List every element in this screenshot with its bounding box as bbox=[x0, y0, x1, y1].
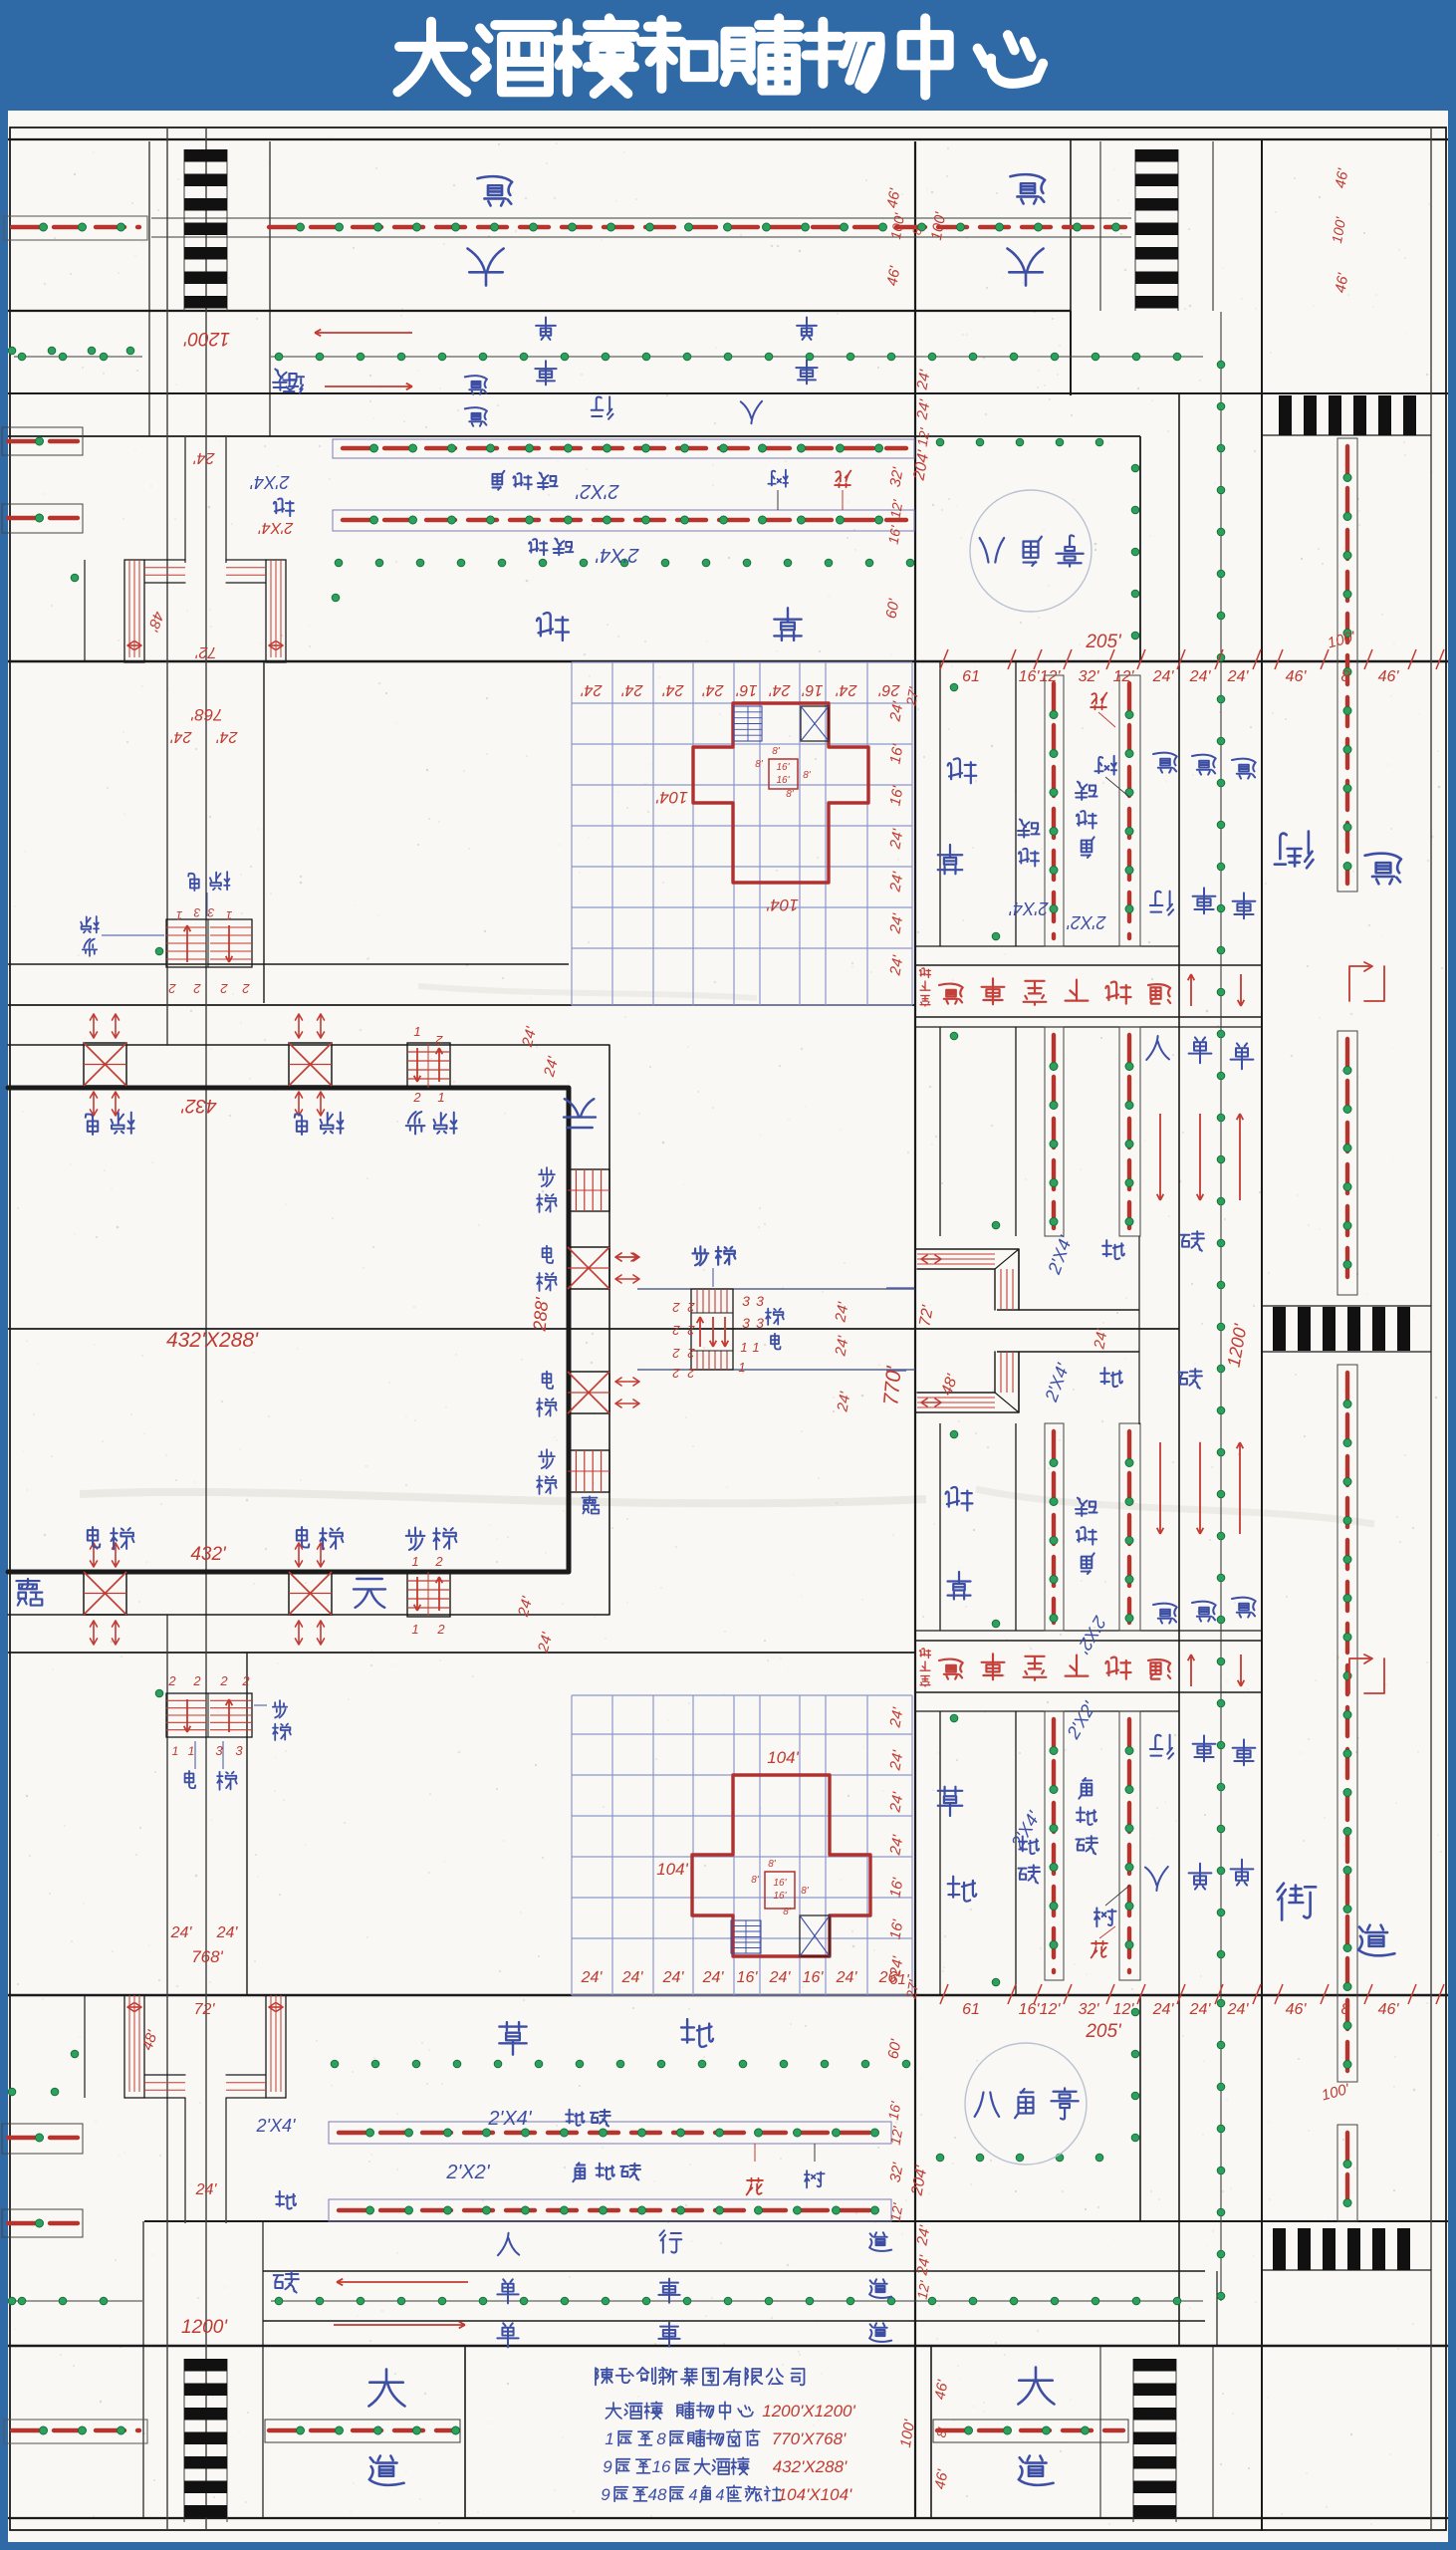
svg-text:1: 1 bbox=[411, 1622, 418, 1637]
svg-text:2: 2 bbox=[687, 1300, 696, 1315]
svg-text:104': 104' bbox=[767, 1748, 799, 1767]
tick slashes bottom header row bbox=[940, 1984, 948, 2004]
bottom avenue bottom edge y2528 bbox=[8, 2517, 1448, 2519]
building mid floor line bbox=[8, 1328, 1179, 1330]
svg-text:26': 26' bbox=[878, 681, 901, 698]
bottom lane row labels bbox=[498, 2233, 519, 2255]
right wall arrows bbox=[615, 1256, 639, 1258]
bottom lawn labels bbox=[499, 2022, 526, 2055]
svg-text:8': 8' bbox=[803, 770, 812, 781]
right section tree strips with flowers bbox=[1045, 675, 1064, 946]
svg-text:3: 3 bbox=[207, 905, 214, 919]
right street labels top (rotated) bbox=[1275, 832, 1314, 869]
lane divider y2280 bbox=[263, 2270, 1205, 2272]
green dotted bike lane top bbox=[14, 356, 142, 358]
mid corridor lines right bbox=[997, 1309, 1139, 1311]
svg-text:8': 8' bbox=[786, 789, 795, 800]
legend box bbox=[464, 2346, 466, 2518]
crosswalk frame verticals bottom-left bbox=[142, 2221, 144, 2346]
svg-text:2: 2 bbox=[672, 1323, 681, 1338]
svg-text:2: 2 bbox=[192, 1673, 201, 1688]
right lane col arrows bottom bbox=[1190, 1655, 1192, 1686]
green dotted bike lane vertical right bbox=[1220, 357, 1222, 1995]
svg-text:205': 205' bbox=[1085, 2021, 1122, 2042]
svg-text:24': 24' bbox=[581, 681, 604, 698]
crosswalk top-right bbox=[1135, 149, 1178, 162]
svg-text:16': 16' bbox=[1019, 668, 1041, 685]
svg-text:2: 2 bbox=[220, 981, 229, 996]
crosswalk bottom-left bbox=[184, 2359, 227, 2372]
svg-text:2'X4': 2'X4' bbox=[250, 472, 290, 492]
svg-text:16: 16 bbox=[652, 2457, 671, 2476]
stair 2x2 top axis bbox=[166, 919, 252, 967]
band above building y968 bbox=[8, 963, 569, 965]
svg-text:8': 8' bbox=[768, 1859, 777, 1870]
svg-text:24': 24' bbox=[216, 1924, 239, 1941]
lane band line y438 bbox=[8, 435, 1140, 437]
svg-text:2: 2 bbox=[168, 981, 177, 996]
vertical x1184 (lane col west) bbox=[1178, 393, 1180, 2346]
zebra boundary lines right street bbox=[1262, 434, 1431, 436]
top avenue centerline band lines bbox=[151, 217, 1131, 219]
corridor right-end vertical x1144 bbox=[1138, 1236, 1140, 1424]
blue tick segments near C structure bbox=[886, 1287, 914, 1289]
svg-text:2'X4': 2'X4' bbox=[595, 544, 639, 566]
svg-text:16': 16' bbox=[736, 681, 758, 698]
svg-text:2: 2 bbox=[436, 1622, 445, 1637]
svg-text:61': 61' bbox=[889, 1971, 910, 1988]
green dotted bike lane bottom bbox=[14, 2300, 142, 2302]
tree strip bottom 1 bbox=[329, 2122, 891, 2144]
svg-text:2: 2 bbox=[672, 1346, 681, 1361]
left street garden boxes top bbox=[2, 427, 83, 455]
building elevator boxes top wall bbox=[84, 1043, 126, 1086]
svg-text:32': 32' bbox=[1079, 668, 1100, 685]
mid corridor lines center bbox=[637, 1288, 915, 1290]
svg-text:24': 24' bbox=[769, 1969, 792, 1986]
svg-text:2: 2 bbox=[435, 1033, 444, 1048]
top avenue centerline boxes at left edge bbox=[4, 216, 147, 240]
top avenue top edge bbox=[8, 138, 1448, 140]
building right wall stair box upper bbox=[568, 1169, 609, 1211]
svg-text:768': 768' bbox=[191, 1947, 223, 1966]
svg-text:2'X4': 2'X4' bbox=[258, 519, 295, 536]
svg-text:3: 3 bbox=[756, 1315, 764, 1331]
building stair box top wall bbox=[407, 1043, 450, 1088]
cross tower top (red outline) bbox=[693, 703, 868, 883]
building right wall elevator upper bbox=[568, 1247, 609, 1289]
top lane arrows bbox=[315, 332, 412, 334]
tick slashes top header row bbox=[940, 649, 948, 669]
stair column frame verticals x265 bbox=[263, 661, 265, 1003]
top plaza blue grid bbox=[571, 662, 573, 1005]
bottom avenue top edge y2355 bbox=[8, 2345, 1448, 2347]
svg-text:768': 768' bbox=[190, 705, 222, 724]
svg-text:2: 2 bbox=[434, 1554, 443, 1569]
svg-text:48: 48 bbox=[648, 2485, 667, 2504]
svg-text:72': 72' bbox=[195, 643, 217, 660]
svg-text:104': 104' bbox=[766, 895, 798, 914]
svg-text:1: 1 bbox=[740, 1340, 747, 1355]
svg-text:16': 16' bbox=[802, 681, 824, 698]
svg-text:24': 24' bbox=[1227, 2001, 1250, 2018]
svg-text:46': 46' bbox=[1286, 2001, 1308, 2018]
svg-text:16': 16' bbox=[776, 762, 790, 773]
hotel building main wall (thick) bbox=[8, 1088, 569, 1572]
svg-text:61: 61 bbox=[962, 2001, 980, 2018]
svg-text:432'X288': 432'X288' bbox=[773, 2457, 848, 2476]
dian-ti label center bbox=[766, 1309, 784, 1325]
zebra edge verticals bbox=[183, 149, 185, 311]
svg-text:46': 46' bbox=[1286, 668, 1308, 685]
crosswalk right-top horizontal bbox=[1279, 395, 1292, 435]
svg-text:2'X4': 2'X4' bbox=[1009, 898, 1049, 918]
svg-text:8': 8' bbox=[755, 759, 764, 770]
svg-text:24': 24' bbox=[702, 681, 725, 698]
svg-text:9: 9 bbox=[603, 2457, 612, 2476]
right lawn block edges x944/x1020 bbox=[939, 661, 941, 946]
svg-text:2'X2': 2'X2' bbox=[575, 480, 619, 502]
svg-text:432': 432' bbox=[190, 1544, 227, 1565]
dian-ti label bottom stair bbox=[185, 1771, 196, 1788]
top avenue centerline dashes bbox=[12, 225, 139, 229]
crosswalk bottom-right bbox=[1133, 2359, 1176, 2372]
bottom lane arrows bbox=[337, 2281, 468, 2283]
right street turn arrows bottom bbox=[1349, 1658, 1369, 1693]
short verticals x85 bbox=[84, 560, 86, 661]
svg-text:24': 24' bbox=[193, 449, 216, 466]
dian-ti label top stair (rotated) bbox=[188, 874, 199, 891]
right section top labels (rotated) bbox=[948, 758, 977, 783]
bu-ti label top stair (rotated) bbox=[81, 916, 99, 932]
crosswalk frame verticals top-left bbox=[148, 311, 150, 436]
svg-text:104': 104' bbox=[656, 1860, 688, 1879]
building elevator boxes bottom wall bbox=[84, 1572, 126, 1615]
svg-text:3: 3 bbox=[742, 1315, 750, 1331]
svg-text:8': 8' bbox=[751, 1875, 760, 1886]
tower top stair symbol bbox=[734, 706, 762, 741]
svg-text:2: 2 bbox=[687, 1346, 696, 1361]
svg-text:3: 3 bbox=[215, 1743, 223, 1758]
left entry stair structure top bbox=[124, 560, 144, 662]
top avenue bottom edge bbox=[8, 310, 1071, 312]
svg-text:104': 104' bbox=[655, 788, 687, 807]
svg-text:24': 24' bbox=[621, 681, 644, 698]
svg-text:24': 24' bbox=[702, 1969, 725, 1986]
bottom avenue labels bbox=[368, 2370, 404, 2407]
svg-text:2: 2 bbox=[241, 1673, 250, 1688]
octagon pavilion circle bottom bbox=[965, 2043, 1087, 2165]
crosswalk right-bottom horizontal bbox=[1273, 2228, 1286, 2270]
svg-text:2'X2': 2'X2' bbox=[1067, 912, 1106, 932]
plaza/lawn boundary y664 bbox=[8, 660, 1448, 663]
svg-text:432': 432' bbox=[180, 1095, 217, 1116]
svg-text:770': 770' bbox=[879, 1365, 905, 1406]
svg-text:24': 24' bbox=[170, 728, 193, 745]
svg-text:205': 205' bbox=[1085, 632, 1122, 652]
svg-text:24': 24' bbox=[769, 681, 792, 698]
svg-text:12': 12' bbox=[1040, 668, 1062, 685]
building labels bbox=[354, 1579, 385, 1608]
crosswalk right-middle horizontal bbox=[1273, 1307, 1286, 1351]
svg-text:770'X768': 770'X768' bbox=[772, 2429, 847, 2448]
svg-text:12': 12' bbox=[1113, 668, 1135, 685]
right street turn arrows top bbox=[1349, 966, 1369, 1001]
svg-text:2: 2 bbox=[193, 981, 202, 996]
corner vertical at x1075 bbox=[1070, 139, 1072, 311]
faint eraser smudges bbox=[80, 1492, 926, 1503]
tree strip top 2 (2x4 pavers) bbox=[333, 510, 914, 531]
svg-text:8: 8 bbox=[1341, 2001, 1350, 2018]
svg-text:72': 72' bbox=[194, 2001, 216, 2018]
svg-text:2: 2 bbox=[412, 1090, 421, 1105]
svg-text:2: 2 bbox=[687, 1323, 696, 1338]
tower top elevator box bbox=[801, 706, 829, 741]
svg-text:8: 8 bbox=[656, 2429, 666, 2448]
svg-text:1: 1 bbox=[411, 1554, 418, 1569]
svg-text:12': 12' bbox=[1113, 2001, 1135, 2018]
ramp band lines bottom bbox=[915, 1630, 1262, 1632]
bottom-right corner verticals bbox=[1216, 2271, 1218, 2346]
ramp band lines (garage entrance) top bbox=[915, 945, 1179, 947]
svg-text:1: 1 bbox=[188, 1744, 195, 1758]
svg-text:24': 24' bbox=[836, 1969, 858, 1986]
building right wall stair box lower bbox=[568, 1450, 609, 1492]
svg-text:2: 2 bbox=[242, 981, 251, 996]
svg-text:24': 24' bbox=[581, 1969, 604, 1986]
svg-text:104'X104': 104'X104' bbox=[778, 2485, 852, 2504]
svg-text:24': 24' bbox=[195, 2181, 218, 2198]
bottom plaza boundary y2003 bbox=[8, 1994, 1448, 1997]
svg-text:16': 16' bbox=[776, 775, 790, 786]
tower top inner core square bbox=[769, 759, 798, 789]
svg-text:24': 24' bbox=[170, 1924, 193, 1941]
tree dots row continuation bottom right bbox=[936, 2154, 944, 2162]
tree dots row above top lawn bbox=[335, 559, 343, 567]
svg-text:3: 3 bbox=[756, 1293, 764, 1309]
bottom plaza blue grid bbox=[571, 1695, 573, 1995]
svg-text:46': 46' bbox=[1378, 2001, 1400, 2018]
crosswalk flank verticals in avenues bbox=[148, 141, 150, 311]
svg-text:2: 2 bbox=[672, 1366, 681, 1381]
svg-text:61: 61 bbox=[962, 668, 980, 685]
svg-text:32': 32' bbox=[1079, 2001, 1100, 2018]
corner vertical x1145 top bbox=[1139, 436, 1141, 661]
svg-text:3: 3 bbox=[235, 1743, 243, 1758]
garage ramp text top (rotated red) bbox=[939, 984, 963, 1004]
svg-text:8': 8' bbox=[772, 746, 781, 757]
main vertical x919 bbox=[914, 141, 916, 2518]
svg-text:46': 46' bbox=[1378, 668, 1400, 685]
svg-text:288': 288' bbox=[530, 1296, 553, 1333]
svg-text:1: 1 bbox=[437, 1090, 444, 1105]
svg-text:8': 8' bbox=[801, 1886, 810, 1897]
right street median tree strip bbox=[1337, 438, 1357, 892]
left pedestrian axis verticals bbox=[166, 127, 168, 1045]
top lawn labels (rotated) bbox=[537, 613, 569, 640]
flower/tree leaders bottom bbox=[747, 2178, 763, 2195]
svg-text:24': 24' bbox=[836, 681, 858, 698]
svg-text:24': 24' bbox=[1152, 668, 1175, 685]
svg-text:24': 24' bbox=[662, 1969, 685, 1986]
tower bottom inner core square bbox=[765, 1872, 795, 1909]
bu-ti label bottom stair bbox=[273, 1700, 287, 1717]
corridor verticals left axis bbox=[184, 436, 186, 563]
right street west edge x1267 bbox=[1261, 139, 1263, 2531]
svg-text:432'X288': 432'X288' bbox=[166, 1329, 259, 1352]
svg-text:4: 4 bbox=[689, 2487, 698, 2504]
scattered lawn dots bbox=[332, 594, 340, 602]
octagon pavilion circle top bbox=[970, 490, 1092, 612]
svg-text:16': 16' bbox=[737, 1969, 759, 1986]
tree dots column at plaza NE bbox=[1131, 464, 1139, 472]
svg-text:1: 1 bbox=[738, 1360, 745, 1375]
cross tower bottom (red outline) bbox=[692, 1775, 870, 1956]
svg-text:1200': 1200' bbox=[181, 2317, 228, 2338]
svg-text:2'X4': 2'X4' bbox=[256, 2116, 296, 2136]
svg-text:24': 24' bbox=[621, 1969, 644, 1986]
tree dots row continuation right bbox=[936, 438, 944, 446]
svg-text:2: 2 bbox=[687, 1366, 696, 1381]
flower/tree leaders top (rotated) bbox=[835, 471, 850, 488]
svg-text:1200'X1200': 1200'X1200' bbox=[762, 2402, 855, 2421]
svg-text:24': 24' bbox=[1227, 668, 1250, 685]
svg-text:1: 1 bbox=[413, 1024, 420, 1039]
right street labels bottom bbox=[1278, 1884, 1317, 1920]
right lane col long arrows upper bbox=[1159, 1114, 1161, 1200]
corner vertical x1145 bottom bbox=[1139, 1995, 1141, 2221]
crosswalk top-left bbox=[184, 149, 227, 162]
tree strip bottom 2 bbox=[329, 2199, 891, 2221]
svg-text:8: 8 bbox=[1341, 668, 1350, 685]
building stair box bottom wall bbox=[407, 1572, 450, 1617]
svg-text:2'X4': 2'X4' bbox=[487, 2108, 532, 2130]
svg-text:2'X2': 2'X2' bbox=[445, 2162, 490, 2183]
svg-text:24': 24' bbox=[216, 728, 239, 745]
svg-text:24': 24' bbox=[1152, 2001, 1175, 2018]
svg-text:1: 1 bbox=[176, 908, 183, 922]
bu-ti ladder label center bbox=[692, 1246, 708, 1265]
svg-text:24': 24' bbox=[1189, 2001, 1212, 2018]
tree dots column at plaza SE bbox=[1131, 2008, 1139, 2016]
svg-text:16': 16' bbox=[773, 1878, 787, 1889]
svg-text:2: 2 bbox=[672, 1300, 681, 1315]
legend row 1 bbox=[606, 2403, 621, 2419]
svg-text:16': 16' bbox=[773, 1891, 787, 1902]
tree dots row bottom lawn bbox=[331, 2060, 339, 2068]
sidewalk band top y2230 bbox=[144, 2220, 1448, 2222]
svg-text:24': 24' bbox=[1189, 668, 1212, 685]
lane divider y2330 bbox=[263, 2320, 1205, 2322]
svg-text:4: 4 bbox=[716, 2487, 725, 2504]
building right wall elevator lower bbox=[568, 1372, 609, 1413]
svg-text:8': 8' bbox=[783, 1907, 792, 1917]
garage ramp text bottom (rotated red) bbox=[939, 1659, 963, 1679]
tree strip top 1 (2x2 hex pavers) bbox=[333, 439, 914, 458]
central stair pair at core bbox=[691, 1289, 733, 1370]
stair 2x2 bottom axis bbox=[166, 1693, 252, 1737]
top avenue labels (rotated) bbox=[477, 176, 512, 205]
plaza bottom line y1009 bbox=[8, 1004, 915, 1006]
svg-text:1200': 1200' bbox=[183, 328, 230, 349]
svg-text:1: 1 bbox=[605, 2429, 613, 2448]
svg-text:1: 1 bbox=[172, 1744, 179, 1758]
sidewalk line y395 bbox=[8, 392, 1448, 394]
band below building y1659 bbox=[8, 1652, 915, 1654]
right section bottom labels bbox=[938, 1787, 962, 1816]
bottom avenue centerline bbox=[4, 2420, 147, 2443]
banner title: big hotel and shopping center bbox=[397, 22, 466, 93]
svg-text:16': 16' bbox=[803, 1969, 825, 1986]
right-mid C stair structure bbox=[916, 1249, 1019, 1412]
svg-text:2: 2 bbox=[219, 1673, 228, 1688]
tower bottom stair symbol bbox=[731, 1920, 761, 1953]
tower bottom elevator box bbox=[800, 1915, 830, 1956]
top lane row labels (rotated) bbox=[465, 376, 487, 394]
legend company name: Chen's Innovation Group Co Ltd bbox=[596, 2368, 612, 2385]
svg-text:3: 3 bbox=[193, 905, 200, 919]
left entry stair structure bottom bbox=[124, 1995, 144, 2098]
svg-text:3: 3 bbox=[742, 1293, 750, 1309]
right street east line x1437 bbox=[1430, 127, 1432, 2530]
hotel building outer balcony line bbox=[8, 1045, 609, 1615]
right lane col long arrows lower bbox=[1159, 1442, 1161, 1534]
svg-text:1: 1 bbox=[752, 1340, 759, 1355]
svg-text:1: 1 bbox=[226, 908, 233, 922]
right lane col arrows top bbox=[1190, 974, 1192, 1006]
svg-text:16': 16' bbox=[1019, 2001, 1041, 2018]
left street garden boxes bottom bbox=[2, 2124, 83, 2154]
svg-text:24': 24' bbox=[662, 681, 685, 698]
svg-text:2: 2 bbox=[167, 1673, 176, 1688]
svg-text:9: 9 bbox=[601, 2485, 610, 2504]
svg-text:12': 12' bbox=[1040, 2001, 1062, 2018]
